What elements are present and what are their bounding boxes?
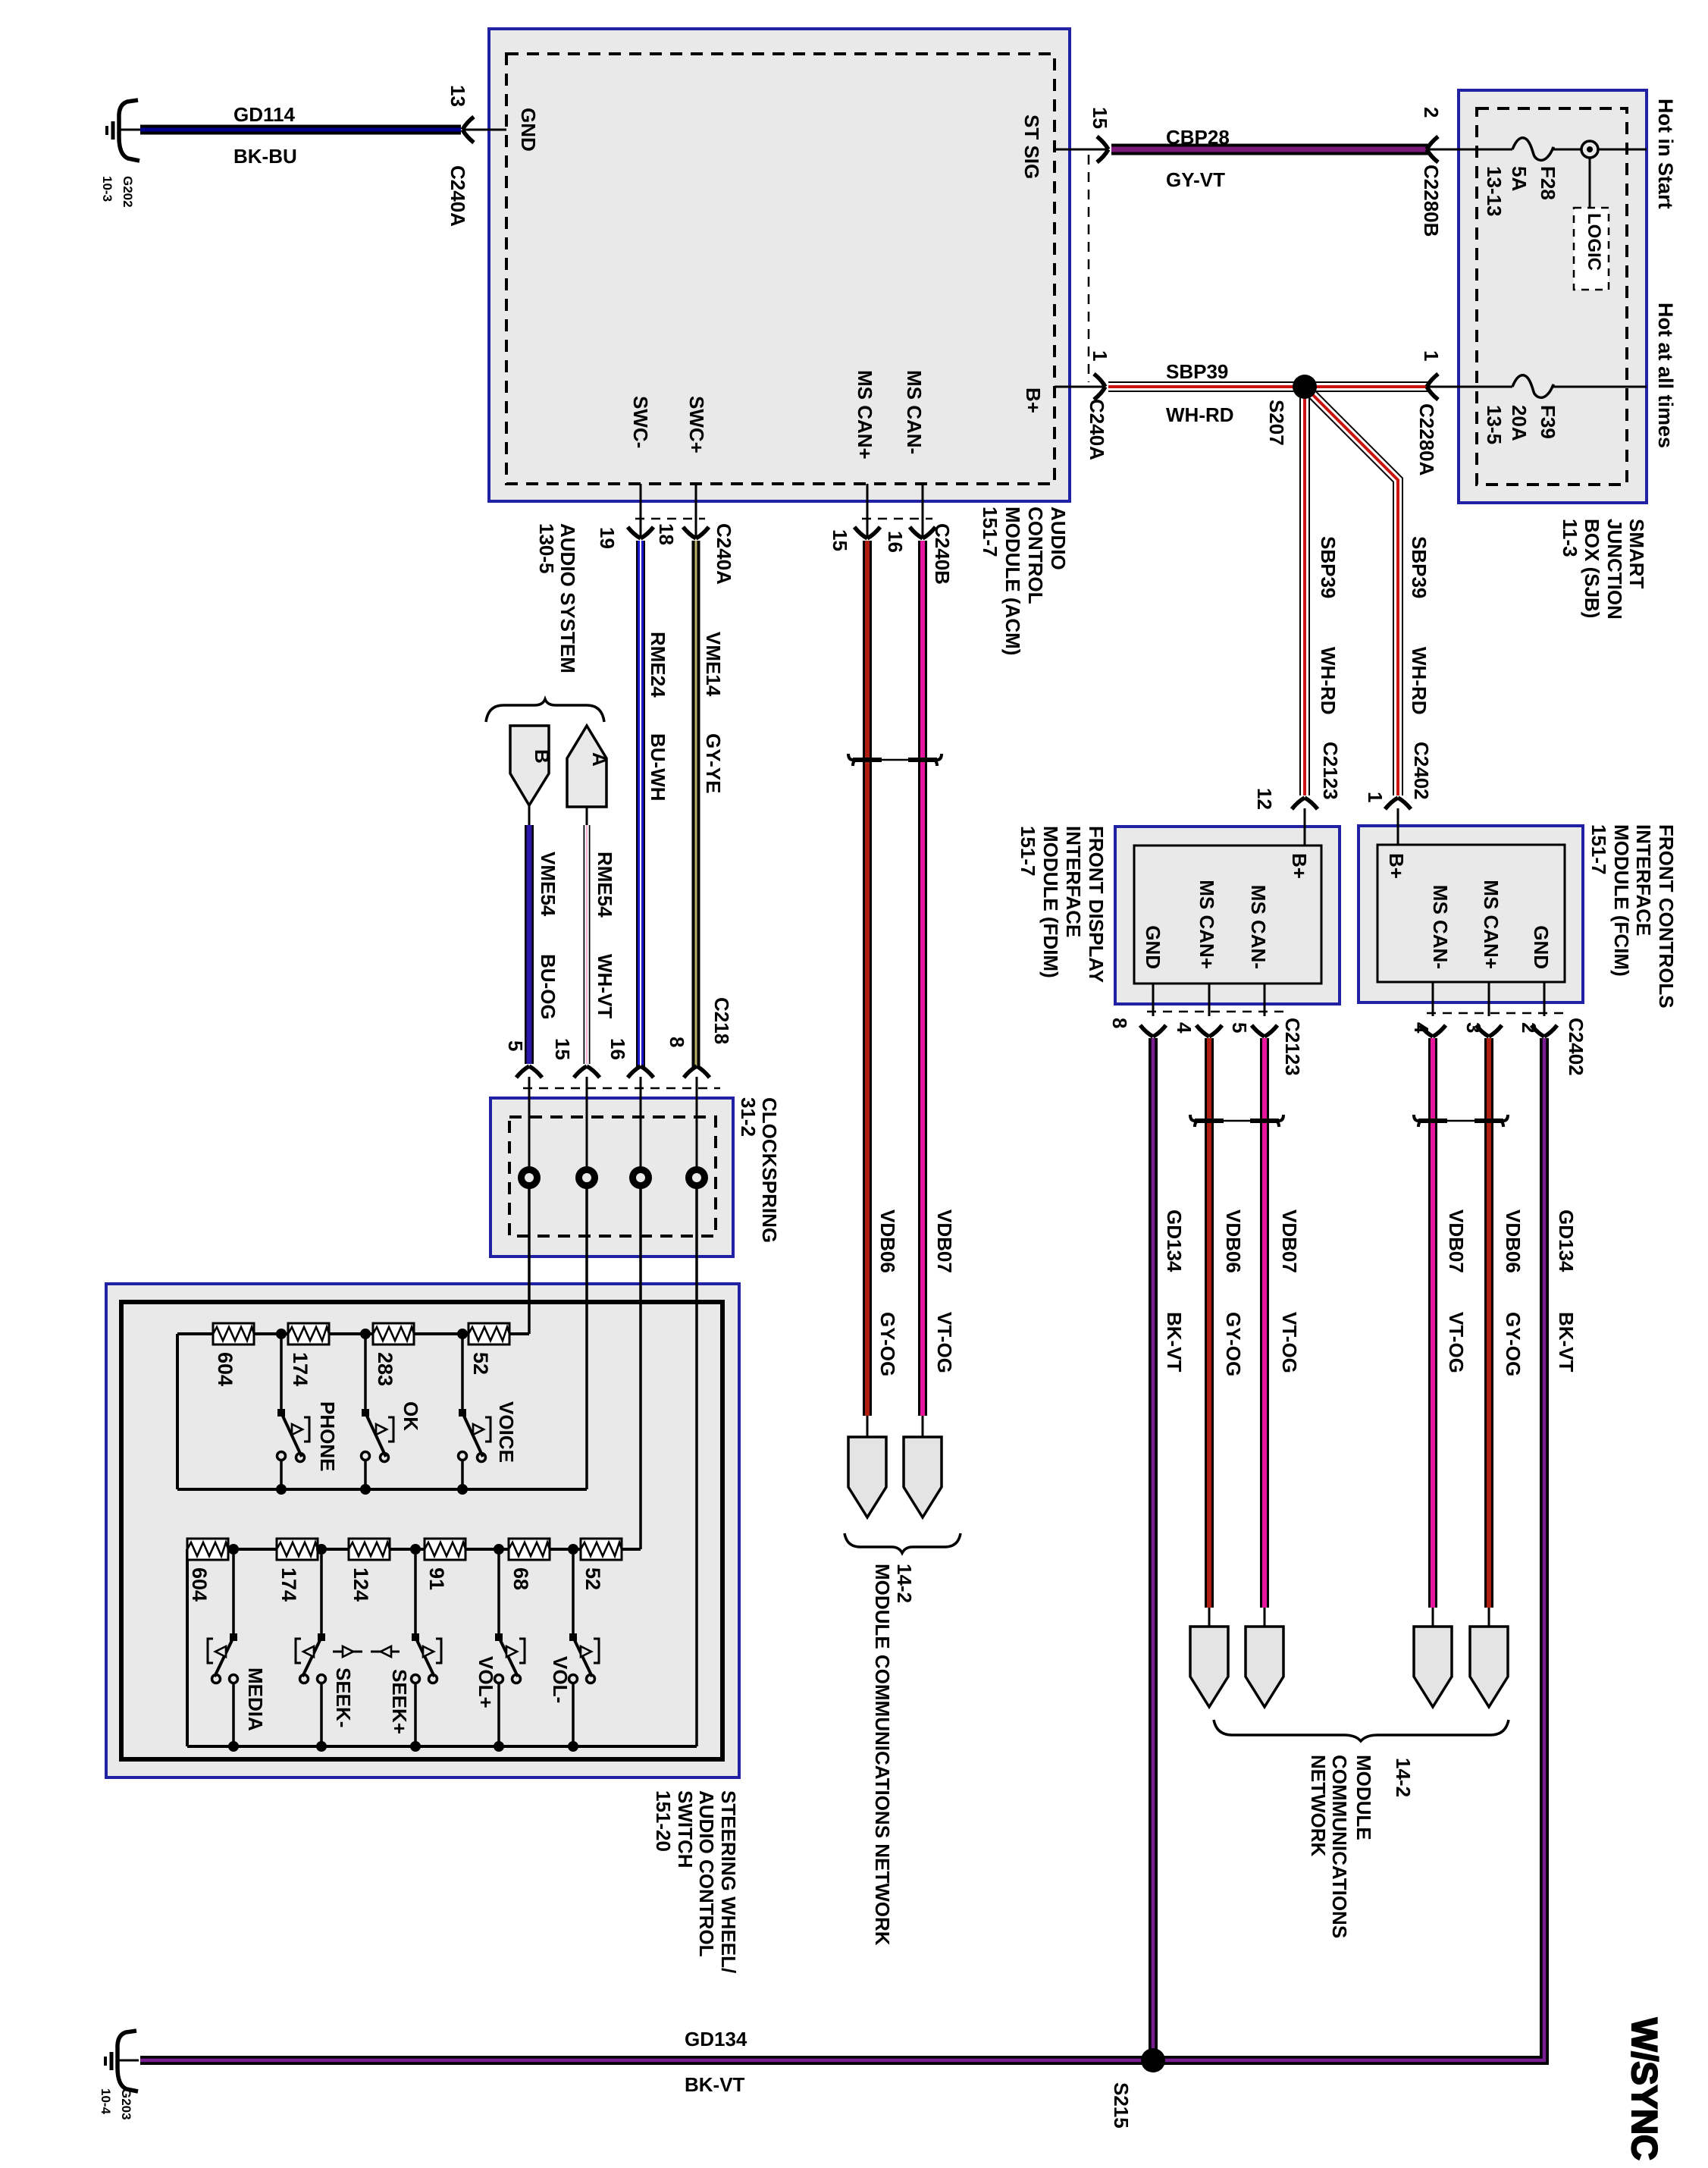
- svg-text:5: 5: [504, 1040, 527, 1051]
- connector C218 pin 15 arrow: [551, 1038, 600, 1169]
- svg-text:GY-VT: GY-VT: [1166, 168, 1225, 191]
- resistor 283 row1: [373, 1323, 414, 1386]
- svg-text:INTERFACE: INTERFACE: [1062, 826, 1085, 937]
- connector C2402 dashes: [1427, 1012, 1568, 1015]
- FCIM name label: [1587, 824, 1678, 1009]
- svg-text:16: 16: [606, 1038, 629, 1060]
- svg-text:AUDIO CONTROL: AUDIO CONTROL: [695, 1790, 718, 1957]
- wire GD134 BK-VT from FCIM: [1544, 1038, 1578, 2056]
- splice S215: [1110, 2048, 1165, 2129]
- svg-text:CBP28: CBP28: [1166, 126, 1230, 149]
- svg-text:FRONT DISPLAY: FRONT DISPLAY: [1085, 826, 1108, 983]
- svg-text:BU-OG: BU-OG: [537, 954, 559, 1020]
- svg-text:RME54: RME54: [594, 852, 616, 918]
- switch VOL+: [475, 1544, 525, 1752]
- svg-text:151-7: 151-7: [1587, 824, 1610, 875]
- svg-text:13-13: 13-13: [1483, 166, 1506, 217]
- svg-text:B: B: [531, 749, 553, 764]
- svg-text:91: 91: [425, 1567, 448, 1590]
- svg-text:BK-VT: BK-VT: [685, 2073, 745, 2096]
- wire row1 top bus: [177, 1332, 529, 1335]
- svg-text:VME14: VME14: [702, 632, 725, 697]
- wire GD134 BK-VT bottom: [140, 2028, 1544, 2096]
- connector A: [567, 726, 611, 807]
- svg-text:4: 4: [1173, 1022, 1196, 1034]
- svg-text:VOL+: VOL+: [475, 1656, 497, 1708]
- brace module network right: [1214, 1720, 1509, 1741]
- svg-text:14-2: 14-2: [893, 1564, 916, 1603]
- svg-text:VME54: VME54: [537, 852, 559, 917]
- switch VOL-: [549, 1544, 599, 1752]
- SJB name label: [1559, 519, 1648, 620]
- module communications network label left: [871, 1564, 916, 1946]
- connector C240B pin 16 arrow: [884, 523, 954, 585]
- svg-text:MODULE (FDIM): MODULE (FDIM): [1039, 826, 1062, 978]
- svg-text:174: 174: [277, 1567, 300, 1602]
- svg-text:13: 13: [447, 85, 469, 107]
- svg-text:VOL-: VOL-: [549, 1656, 572, 1703]
- svg-text:G202: G202: [121, 176, 135, 208]
- svg-text:WH-VT: WH-VT: [594, 954, 616, 1018]
- switch OK: [360, 1329, 422, 1495]
- wire VME14 GY-YE: [696, 541, 725, 1068]
- svg-text:B+: B+: [1022, 387, 1045, 413]
- svg-text:NETWORK: NETWORK: [1307, 1755, 1330, 1857]
- connector C218 pin 8 arrow: [666, 1037, 710, 1169]
- svg-text:INTERFACE: INTERFACE: [1632, 824, 1655, 936]
- svg-text:SEEK+: SEEK+: [388, 1669, 411, 1734]
- offpage arrow FCIM VDB07: [1414, 1608, 1452, 1707]
- wire SWC- pin line: [640, 484, 642, 537]
- svg-text:4: 4: [1410, 1022, 1433, 1034]
- ground G202: [100, 100, 140, 208]
- svg-text:604: 604: [188, 1567, 211, 1602]
- clockspring ring 2: [579, 1170, 595, 1186]
- svg-text:BOX (SJB): BOX (SJB): [1581, 519, 1603, 618]
- wire row2 top bus: [187, 1548, 641, 1551]
- clockspring ring 4: [689, 1170, 705, 1186]
- svg-text:BK-BU: BK-BU: [233, 145, 297, 168]
- svg-text:AUDIO: AUDIO: [1047, 507, 1070, 570]
- wire VDB06 GY-OG from FDIM: [1209, 1038, 1245, 1608]
- svg-text:151-20: 151-20: [652, 1790, 675, 1852]
- brace module network left: [845, 1533, 961, 1553]
- svg-text:10-4: 10-4: [99, 2088, 113, 2115]
- FDIM name label: [1017, 826, 1108, 983]
- wire MS CAN+ pin line: [867, 484, 869, 537]
- ground G203: [99, 2031, 139, 2120]
- wire VME54 BU-OG: [529, 805, 559, 1064]
- wire RME24 BU-WH: [641, 541, 669, 1068]
- svg-text:CLOCKSPRING: CLOCKSPRING: [758, 1097, 781, 1243]
- connector C2402 pin 1 arrow: [1364, 742, 1433, 845]
- svg-text:SWC+: SWC+: [685, 396, 708, 453]
- FCIM MS CAN+ pin line: [1488, 982, 1490, 1016]
- svg-text:STEERING WHEEL/: STEERING WHEEL/: [717, 1790, 740, 1973]
- svg-text:GD134: GD134: [1163, 1209, 1186, 1272]
- svg-text:BK-VT: BK-VT: [1163, 1312, 1186, 1373]
- connector C240A dashed line: [1088, 155, 1090, 382]
- wire row2 bottom bus: [187, 1745, 697, 1748]
- svg-text:MODULE COMMUNICATIONS NETWORK: MODULE COMMUNICATIONS NETWORK: [871, 1564, 894, 1946]
- svg-text:PHONE: PHONE: [316, 1401, 339, 1471]
- svg-text:174: 174: [289, 1352, 312, 1386]
- svg-text:B+: B+: [1385, 853, 1408, 879]
- clockspring ring 3: [633, 1170, 649, 1186]
- audio control module ACM box: [489, 29, 1070, 501]
- brace audio system: [486, 699, 604, 722]
- svg-text:1: 1: [1420, 350, 1443, 361]
- svg-text:MODULE: MODULE: [1352, 1755, 1375, 1840]
- connector C218 pin 5 arrow: [504, 1040, 542, 1169]
- resistor 174 row2: [277, 1539, 318, 1602]
- fuse F39 20A: [1483, 375, 1647, 444]
- switch SEEK-: [296, 1544, 355, 1752]
- FCIM MS CAN- pin line: [1432, 982, 1434, 1016]
- svg-text:C2280B: C2280B: [1420, 165, 1443, 237]
- offpage arrow VDB07: [904, 1416, 942, 1517]
- offpage arrow FDIM VDB07: [1246, 1608, 1283, 1707]
- twisted pair FCIM CAN: [1414, 1115, 1508, 1127]
- twisted pair ACM CAN: [848, 754, 942, 766]
- svg-text:MS CAN-: MS CAN-: [1247, 885, 1270, 969]
- svg-text:WH-RD: WH-RD: [1317, 647, 1340, 715]
- switch VOICE: [457, 1329, 518, 1495]
- front display interface module FDIM box: [1115, 827, 1340, 1004]
- svg-text:B+: B+: [1288, 853, 1311, 879]
- svg-text:VDB06: VDB06: [1502, 1209, 1525, 1273]
- SJB terminal circle: [1581, 141, 1647, 158]
- connector C2402 pin 2 arrow: [1518, 1018, 1587, 1076]
- connector C240A pin 15 arrow: [1089, 107, 1111, 162]
- wire clockspring to row2 bottom bus: [695, 1186, 698, 1746]
- twisted pair FDIM CAN: [1190, 1115, 1283, 1127]
- steering wheel audio control switch box: [106, 1284, 739, 1777]
- svg-text:S207: S207: [1265, 400, 1288, 446]
- smart junction box SJB: [1459, 90, 1647, 503]
- wire ST SIG pin line: [1055, 149, 1108, 151]
- svg-text:C2402: C2402: [1410, 742, 1433, 800]
- svg-text:VT-OG: VT-OG: [1278, 1312, 1301, 1373]
- wire VDB06 GY-OG from ACM: [867, 541, 899, 1416]
- svg-text:1: 1: [1089, 350, 1111, 361]
- wire GD114 BK-BU: [140, 103, 461, 168]
- svg-text:VT-OG: VT-OG: [933, 1312, 956, 1373]
- connector C2123 dashes: [1147, 1011, 1289, 1013]
- svg-text:MS CAN+: MS CAN+: [854, 370, 876, 460]
- svg-text:16: 16: [884, 531, 907, 553]
- svg-text:AUDIO SYSTEM: AUDIO SYSTEM: [556, 523, 579, 673]
- wire VDB07 VT-OG from ACM: [923, 541, 956, 1416]
- svg-text:SBP39: SBP39: [1166, 360, 1228, 383]
- wire SWC+ pin line: [695, 484, 697, 537]
- offpage arrow FCIM VDB06: [1470, 1608, 1508, 1707]
- svg-text:8: 8: [1108, 1018, 1131, 1028]
- wire GD134 BK-VT from FDIM: [1153, 1038, 1186, 2060]
- connector C240A pin 13 arrow: [447, 85, 506, 227]
- svg-text:S215: S215: [1110, 2082, 1133, 2129]
- clockspring ring 1: [522, 1170, 537, 1186]
- wire VDB07 VT-OG from FDIM: [1265, 1038, 1301, 1608]
- svg-text:15: 15: [1089, 107, 1111, 129]
- svg-text:GD134: GD134: [685, 2028, 747, 2050]
- svg-text:WH-RD: WH-RD: [1408, 647, 1431, 715]
- connector B: [510, 726, 553, 805]
- svg-text:C2280A: C2280A: [1415, 403, 1438, 476]
- connector C2280A pin 1 arrow: [1415, 350, 1512, 476]
- svg-text:C240A: C240A: [447, 165, 469, 227]
- w/sync label: [1625, 2018, 1665, 2160]
- wire row1 left vertical: [176, 1334, 179, 1489]
- svg-text:GND: GND: [517, 108, 540, 152]
- connector C2123 pin 5 arrow: [1228, 1018, 1304, 1076]
- connector C240B dashes: [862, 518, 932, 520]
- svg-text:SWITCH: SWITCH: [674, 1790, 697, 1868]
- svg-text:151-7: 151-7: [1017, 826, 1039, 877]
- resistor 68 row2: [509, 1539, 550, 1590]
- connector C2402 pin 4 arrow: [1410, 1022, 1446, 1037]
- svg-text:FRONT CONTROLS: FRONT CONTROLS: [1655, 824, 1678, 1009]
- svg-text:VT-OG: VT-OG: [1445, 1312, 1468, 1373]
- svg-text:11-3: 11-3: [1559, 519, 1581, 557]
- svg-text:14-2: 14-2: [1392, 1758, 1415, 1797]
- svg-text:13-5: 13-5: [1483, 405, 1506, 444]
- connector C240A pin 18 arrow: [655, 523, 735, 585]
- rocker link seek: [333, 1646, 400, 1657]
- svg-text:Hot in Start: Hot in Start: [1654, 99, 1677, 209]
- svg-text:MS CAN+: MS CAN+: [1480, 880, 1503, 969]
- resistor 124 row2: [349, 1539, 390, 1602]
- wire SBP39 to FDIM: [1305, 387, 1340, 795]
- svg-text:151-7: 151-7: [979, 507, 1001, 557]
- svg-text:15: 15: [829, 529, 851, 551]
- switch SEEK+: [388, 1544, 441, 1752]
- wire clockspring to top bus: [528, 1186, 531, 1334]
- svg-text:BK-VT: BK-VT: [1555, 1312, 1578, 1373]
- fuse F28 5A: [1483, 138, 1581, 217]
- resistor 52 row1: [469, 1323, 509, 1375]
- svg-text:VDB07: VDB07: [1278, 1209, 1301, 1273]
- svg-text:MS CAN+: MS CAN+: [1196, 880, 1218, 969]
- svg-text:12: 12: [1253, 788, 1276, 810]
- svg-text:MODULE (ACM): MODULE (ACM): [1001, 507, 1024, 655]
- svg-text:G203: G203: [119, 2088, 133, 2120]
- svg-text:SMART: SMART: [1625, 519, 1648, 589]
- audio system label: [535, 523, 579, 673]
- resistor 91 row2: [425, 1539, 465, 1590]
- svg-text:SBP39: SBP39: [1317, 536, 1340, 598]
- offpage arrow FDIM VDB06: [1190, 1608, 1228, 1707]
- svg-text:GY-OG: GY-OG: [1222, 1312, 1245, 1376]
- wire VDB07 VT-OG from FCIM: [1433, 1038, 1468, 1608]
- svg-text:2: 2: [1420, 107, 1443, 118]
- svg-text:1: 1: [1364, 792, 1387, 802]
- clockspring box: [490, 1098, 733, 1257]
- svg-text:MS CAN-: MS CAN-: [903, 370, 926, 454]
- module communications network label right: [1307, 1755, 1415, 1938]
- svg-text:124: 124: [349, 1567, 372, 1602]
- svg-text:C2123: C2123: [1281, 1018, 1304, 1076]
- FDIM MS CAN+ pin line: [1208, 984, 1211, 1016]
- connector C2123 pin 12 arrow: [1253, 742, 1342, 846]
- resistor 604 row1: [213, 1323, 254, 1386]
- wire CBP28 GY-VT: [1111, 126, 1428, 191]
- svg-text:VDB07: VDB07: [933, 1209, 956, 1273]
- svg-text:31-2: 31-2: [737, 1097, 760, 1137]
- svg-text:SEEK-: SEEK-: [332, 1668, 355, 1727]
- svg-text:COMMUNICATIONS: COMMUNICATIONS: [1328, 1755, 1351, 1938]
- svg-text:Hot at all times: Hot at all times: [1654, 303, 1677, 448]
- connector C2123 pin 4 arrow: [1173, 1022, 1222, 1037]
- svg-text:3: 3: [1462, 1022, 1485, 1033]
- resistor 604 row2: [187, 1539, 228, 1602]
- svg-text:GY-OG: GY-OG: [1502, 1312, 1525, 1376]
- connector C2123 pin 8 arrow: [1108, 1018, 1166, 1037]
- wire VDB06 GY-OG from FCIM: [1489, 1038, 1525, 1608]
- svg-text:5: 5: [1228, 1022, 1251, 1033]
- svg-text:130-5: 130-5: [535, 523, 558, 574]
- wire B+ pin line: [1055, 386, 1105, 388]
- svg-text:VOICE: VOICE: [495, 1401, 518, 1463]
- svg-text:WH-RD: WH-RD: [1166, 403, 1234, 426]
- svg-text:20A: 20A: [1508, 405, 1531, 441]
- svg-text:C240A: C240A: [1086, 399, 1108, 460]
- svg-text:GY-YE: GY-YE: [702, 733, 725, 793]
- svg-text:JUNCTION: JUNCTION: [1603, 519, 1626, 620]
- svg-text:BU-WH: BU-WH: [647, 733, 669, 802]
- offpage arrow VDB06: [848, 1416, 886, 1517]
- splice S207: [1265, 375, 1317, 446]
- svg-text:5A: 5A: [1508, 166, 1531, 191]
- logic box: [1574, 158, 1609, 290]
- svg-text:W/SYNC: W/SYNC: [1625, 2018, 1665, 2160]
- svg-text:C2402: C2402: [1565, 1018, 1587, 1076]
- svg-text:CONTROL: CONTROL: [1024, 507, 1047, 604]
- svg-text:VDB07: VDB07: [1445, 1209, 1468, 1273]
- svg-text:ST SIG: ST SIG: [1020, 115, 1043, 179]
- FDIM MS CAN- pin line: [1264, 984, 1266, 1016]
- svg-text:52: 52: [581, 1567, 604, 1590]
- svg-text:GY-OG: GY-OG: [876, 1312, 899, 1376]
- svg-text:F39: F39: [1537, 405, 1559, 439]
- svg-text:GD114: GD114: [233, 103, 295, 126]
- wire clockspring to row1 bottom bus: [585, 1186, 588, 1489]
- FCIM GND pin line: [1543, 982, 1546, 1016]
- svg-text:15: 15: [551, 1038, 574, 1060]
- clockspring name label: [737, 1097, 781, 1243]
- wire SBP39 diagonal to FCIM: [1305, 387, 1431, 795]
- svg-text:MODULE (FCIM): MODULE (FCIM): [1610, 824, 1633, 977]
- hot at all times label: [1654, 303, 1677, 448]
- hot in start label: [1654, 99, 1677, 209]
- steering wheel switch name label: [652, 1790, 740, 1973]
- connector C240A dashes: [635, 518, 705, 520]
- svg-text:52: 52: [469, 1352, 492, 1375]
- svg-text:283: 283: [374, 1352, 396, 1386]
- resistor 174 row1: [288, 1323, 329, 1386]
- svg-text:8: 8: [666, 1037, 688, 1047]
- svg-text:604: 604: [214, 1352, 237, 1386]
- ACM name label: [979, 507, 1070, 655]
- connector C240A pin 1 arrow: [1086, 350, 1111, 460]
- switch MEDIA: [208, 1544, 267, 1752]
- wire row2 left vertical: [186, 1549, 189, 1746]
- connector C240A pin 19 arrow: [596, 527, 653, 549]
- svg-text:68: 68: [509, 1567, 532, 1590]
- svg-text:C240A: C240A: [713, 523, 735, 585]
- switch PHONE: [276, 1329, 339, 1495]
- wire clockspring to row2 top bus: [639, 1186, 642, 1549]
- svg-text:C218: C218: [710, 997, 733, 1044]
- connector C2402 pin 3 arrow: [1462, 1022, 1502, 1037]
- svg-text:GND: GND: [1530, 925, 1553, 969]
- svg-text:VDB06: VDB06: [1222, 1209, 1245, 1273]
- svg-text:C240B: C240B: [931, 523, 954, 585]
- connector C218 pin 16 arrow: [606, 1038, 653, 1169]
- svg-text:A: A: [588, 752, 611, 767]
- svg-text:19: 19: [596, 527, 619, 549]
- svg-text:MEDIA: MEDIA: [244, 1668, 267, 1731]
- wire RME54 WH-VT: [587, 807, 616, 1064]
- svg-text:SBP39: SBP39: [1408, 536, 1431, 598]
- svg-text:GD134: GD134: [1555, 1209, 1578, 1272]
- svg-text:10-3: 10-3: [100, 176, 114, 202]
- svg-text:C2123: C2123: [1319, 742, 1342, 800]
- wire MS CAN- pin line: [922, 484, 924, 537]
- front controls interface module FCIM box: [1359, 826, 1583, 1002]
- svg-text:18: 18: [655, 523, 678, 545]
- svg-text:2: 2: [1518, 1022, 1540, 1033]
- wire row1 bottom bus: [177, 1488, 587, 1491]
- FDIM GND pin line: [1152, 984, 1155, 1016]
- wire SBP39 WH-RD horizontal: [1108, 360, 1428, 426]
- svg-text:F28: F28: [1537, 166, 1559, 200]
- svg-text:LOGIC: LOGIC: [1584, 213, 1604, 271]
- svg-text:OK: OK: [400, 1401, 422, 1431]
- connector C218 label: [523, 997, 733, 1088]
- connector C240B pin 15 arrow: [829, 527, 880, 551]
- svg-text:MS CAN-: MS CAN-: [1429, 885, 1452, 969]
- svg-text:VDB06: VDB06: [876, 1209, 899, 1273]
- svg-text:RME24: RME24: [647, 632, 669, 698]
- connector C2280B pin 2 arrow: [1420, 107, 1512, 237]
- svg-text:SWC-: SWC-: [629, 396, 652, 448]
- svg-text:GND: GND: [1142, 925, 1164, 969]
- resistor 52 row2: [581, 1539, 622, 1590]
